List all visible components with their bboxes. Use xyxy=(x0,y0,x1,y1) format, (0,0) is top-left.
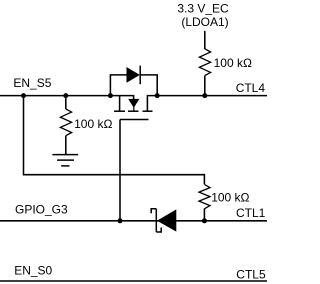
transistor Q1 gate bar xyxy=(120,119,149,121)
wire GPIO_G3 / CTL1 horizontal xyxy=(0,220,267,222)
diode D2 zener anode triangle xyxy=(158,210,176,231)
transistor Q1 source lead xyxy=(119,96,121,111)
wire gate down to GPIO_G3 net xyxy=(119,120,121,221)
svg-text:100 kΩ: 100 kΩ xyxy=(211,191,249,205)
wire R CTL1 bottom to CTL1 net xyxy=(203,209,205,221)
wire EN_S5 branch down-right to R CTL1 xyxy=(24,96,205,185)
wire pulldown resistor top lead xyxy=(65,96,67,109)
svg-text:EN_S5: EN_S5 xyxy=(13,76,51,90)
transistor Q1 body contact bar xyxy=(128,110,139,112)
diode D1 cathode bar xyxy=(139,66,141,85)
svg-text:(LDOA1): (LDOA1) xyxy=(181,15,228,29)
resistor R CTL4 pull-up 100k zigzag xyxy=(199,49,210,76)
junction dot pull-up at CTL4 xyxy=(202,93,207,98)
diode D1 body diode right leg xyxy=(140,75,157,96)
svg-text:GPIO_G3: GPIO_G3 xyxy=(15,203,68,217)
diode D1 anode triangle xyxy=(127,68,139,82)
wire pulldown resistor bottom lead to ground xyxy=(65,136,67,155)
transistor Q1 drain contact bar xyxy=(143,110,153,112)
wire CTL4 horizontal right segment xyxy=(147,96,267,111)
svg-text:CTL4: CTL4 xyxy=(236,81,266,95)
junction dot R CTL1 at CTL1 net xyxy=(202,218,207,223)
wire supply lead down to R CTL4 xyxy=(204,31,206,49)
resistor R CTL1 100k zigzag xyxy=(199,184,210,208)
junction dot gate at GPIO_G3 xyxy=(118,218,123,223)
svg-text:CTL5: CTL5 xyxy=(236,267,266,281)
transistor Q1 body stem xyxy=(133,106,135,111)
junction dot EN_S5 at pulldown resistor xyxy=(63,93,68,98)
svg-text:100 kΩ: 100 kΩ xyxy=(74,117,112,131)
junction dot diode right leg xyxy=(155,93,160,98)
diode D2 zener cathode bar with bent ends xyxy=(151,209,161,232)
junction dot EN_S5 left branch xyxy=(21,93,26,98)
svg-text:EN_S0: EN_S0 xyxy=(14,264,52,278)
resistor R EN_S5 pulldown 100k zigzag xyxy=(60,109,71,136)
junction dot diode left leg xyxy=(108,93,113,98)
transistor Q1 body arrow xyxy=(129,99,138,107)
svg-text:3.3 V_EC: 3.3 V_EC xyxy=(177,1,229,15)
ground symbol xyxy=(52,155,78,166)
svg-text:CTL1: CTL1 xyxy=(236,206,266,220)
diode D1 body diode left leg xyxy=(110,75,127,96)
wire R CTL4 bottom to EN_S5/CTL4 net xyxy=(204,76,206,96)
wire EN_S0 / CTL5 horizontal xyxy=(0,280,267,282)
wire EN_S5 horizontal left segment to FET body xyxy=(0,96,134,100)
svg-text:100 kΩ: 100 kΩ xyxy=(214,56,252,70)
transistor Q1 source contact bar xyxy=(114,110,125,112)
